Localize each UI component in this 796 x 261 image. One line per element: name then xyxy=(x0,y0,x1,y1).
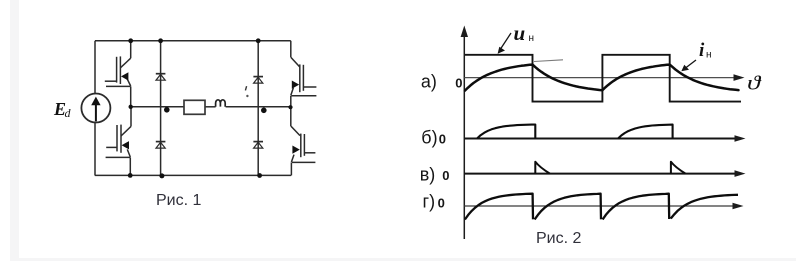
page border left strip xyxy=(10,0,19,261)
junction node A (Q1 emitter / load) xyxy=(129,105,133,109)
Q3 emitter bar xyxy=(291,95,316,97)
stray tick mark xyxy=(245,86,246,90)
Q3 channel bar xyxy=(299,64,301,92)
Q1 collector lead xyxy=(130,41,132,58)
Q1 gate lead xyxy=(105,80,117,82)
svg-text:в): в) xyxy=(420,164,436,184)
axis row v xyxy=(464,173,737,175)
source arrowhead xyxy=(91,97,100,106)
Q3 emitter lead xyxy=(290,96,292,107)
Q4 channel bar xyxy=(300,134,302,158)
svg-text:0: 0 xyxy=(438,196,445,211)
Q2 gate bar xyxy=(116,125,118,151)
Q1 channel bar xyxy=(119,56,121,84)
svg-text:i: i xyxy=(699,40,705,61)
Q3 emitter slant xyxy=(291,88,294,96)
axis row b arrowhead xyxy=(735,135,746,142)
junction node B (Q3 emitter / load) xyxy=(288,105,292,109)
Q3 emitter arrow xyxy=(292,81,299,89)
diode D4 (lower right branch) xyxy=(253,142,263,149)
axis vertical arrowhead xyxy=(461,26,468,38)
top rail xyxy=(95,40,291,42)
svg-text:н: н xyxy=(706,50,712,61)
Q4 emitter bar xyxy=(292,161,315,163)
transistor Q3 (top right) xyxy=(291,41,317,107)
Q2 emitter lead xyxy=(129,157,131,175)
svg-text:0: 0 xyxy=(455,76,462,91)
Q1 emitter slant xyxy=(127,79,131,86)
rectified humps row g xyxy=(465,194,738,220)
axis row b xyxy=(464,138,737,140)
spikes row v xyxy=(535,162,685,174)
source arrow shaft xyxy=(95,104,97,122)
Q2 emitter arrow xyxy=(122,141,129,149)
junction top rail / D3 cathode branch xyxy=(256,38,261,43)
Q2 collector slant xyxy=(121,126,131,136)
stray dot xyxy=(246,95,248,97)
Q4 emitter lead xyxy=(290,162,292,175)
Q1 gate bar xyxy=(116,57,118,83)
junction load rail / left diode branch xyxy=(164,107,170,113)
current curve i_n row a xyxy=(465,65,739,91)
ramp pulses row b xyxy=(477,125,673,139)
svg-text:d: d xyxy=(65,106,72,120)
svg-text:ϑ: ϑ xyxy=(747,73,762,95)
diode branch left xyxy=(160,41,162,176)
diode D2 (lower left branch) xyxy=(156,142,166,149)
junction bottom rail / D4 anode branch xyxy=(257,173,262,178)
Q4 collector slant xyxy=(291,126,300,136)
svg-text:Рис. 1: Рис. 1 xyxy=(156,192,202,209)
Q1 emitter arrow xyxy=(121,72,128,80)
Q4 emitter arrow xyxy=(292,146,299,154)
Q3 collector slant xyxy=(291,57,300,67)
source E_d circle xyxy=(81,94,110,123)
svg-text:0: 0 xyxy=(439,131,446,146)
Q2 collector lead xyxy=(130,107,132,127)
svg-text:Рис. 2: Рис. 2 xyxy=(536,230,582,247)
Q2 emitter slant xyxy=(127,149,130,157)
axis row g xyxy=(464,205,735,207)
left rail upper segment xyxy=(94,41,96,94)
Q3 collector lead xyxy=(290,41,292,57)
junction load rail / right diode branch xyxy=(261,108,267,114)
svg-text:u: u xyxy=(514,21,526,45)
bottom rail xyxy=(95,174,291,176)
Q4 gate lead xyxy=(304,152,315,154)
Q4 collector lead xyxy=(290,107,292,126)
diode branch right xyxy=(257,41,259,176)
thin reference line at current peak xyxy=(534,60,563,62)
junction top rail / Q1 collector xyxy=(128,38,133,43)
Q3 gate bar xyxy=(302,65,304,91)
transistor Q4 (bottom right) xyxy=(291,107,316,176)
axis row g arrowhead xyxy=(733,203,744,210)
left rail lower segment xyxy=(94,123,96,176)
Q1 emitter bar xyxy=(106,85,131,87)
Q2 gate lead xyxy=(106,146,117,148)
axis row a arrowhead xyxy=(734,74,745,81)
page border bottom strip xyxy=(10,258,796,261)
transistor Q1 (top left) xyxy=(105,41,131,107)
Q4 gate bar xyxy=(303,134,305,156)
Q2 emitter bar xyxy=(106,156,131,158)
inductor L (load) xyxy=(216,100,226,107)
arrow from u_n to square wave xyxy=(501,33,512,49)
junction top rail / D1 cathode branch xyxy=(158,38,163,43)
svg-text:н: н xyxy=(529,33,535,44)
svg-text:б): б) xyxy=(421,127,437,147)
load rail middle segment xyxy=(205,106,216,108)
junction bottom rail / Q2 emitter xyxy=(128,173,133,178)
load rail right segment xyxy=(226,106,291,108)
axis vertical (waveforms) xyxy=(463,34,465,239)
Q1 collector slant xyxy=(120,58,130,68)
load rail left segment xyxy=(131,106,184,108)
Q1 emitter lead xyxy=(130,86,132,106)
transistor Q2 (bottom left) xyxy=(106,107,131,176)
Q3 gate lead xyxy=(303,86,316,88)
axis row v arrowhead xyxy=(735,170,746,177)
svg-text:г): г) xyxy=(423,192,436,212)
arrow from i_n to current curve xyxy=(686,60,697,68)
resistor R (load) xyxy=(184,100,205,114)
diode D3 (upper right branch) xyxy=(253,77,263,84)
junction bottom rail / D2 anode branch xyxy=(159,173,164,178)
svg-text:0: 0 xyxy=(442,168,449,183)
Q2 channel bar xyxy=(120,125,122,153)
Q4 emitter slant xyxy=(291,155,294,162)
svg-text:а): а) xyxy=(421,72,437,92)
square wave u_n row a xyxy=(465,55,741,102)
diode D1 (upper left branch) xyxy=(156,74,166,81)
axis row a xyxy=(464,77,735,79)
